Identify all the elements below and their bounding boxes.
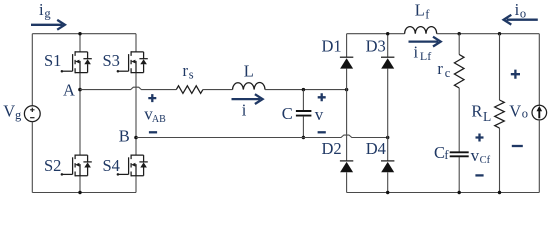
wire Lf to right corner	[437, 33, 540, 35]
svg-text:i: i	[39, 0, 44, 19]
junction dot rc branch top	[458, 32, 461, 35]
svg-text:o: o	[522, 107, 528, 121]
junction dot Cf bottom	[458, 191, 461, 194]
svg-text:S1: S1	[44, 51, 61, 70]
junction dot D4 bottom	[386, 191, 389, 194]
junction dot D3 top	[386, 32, 389, 35]
inductor Lf	[405, 27, 437, 34]
current arrow i	[232, 94, 263, 104]
minus vAB	[149, 131, 157, 133]
resistor rc	[454, 55, 464, 89]
wire leg1 middle through node A	[79, 73, 81, 156]
wire bottom-left rail	[32, 192, 136, 194]
svg-text:g: g	[44, 7, 51, 21]
junction dot leg1 bottom	[78, 191, 81, 194]
capacitor C plates	[296, 111, 312, 116]
svg-text:g: g	[15, 108, 22, 122]
wire D3/D4 leg lower	[387, 172, 389, 192]
plus Vo	[511, 70, 520, 79]
svg-text:D4: D4	[366, 139, 386, 158]
wire top-right rail bridge to Lf	[347, 33, 405, 35]
current arrow ig	[31, 20, 65, 30]
diode D3	[381, 57, 394, 68]
plus v	[318, 93, 326, 101]
wire RL branch upper	[499, 34, 501, 100]
transistor S4	[117, 155, 148, 177]
junction dot RL bottom	[498, 191, 501, 194]
svg-text:V: V	[3, 102, 15, 121]
svg-text:D3: D3	[366, 37, 386, 56]
svg-text:C: C	[434, 143, 445, 162]
svg-text:V: V	[509, 101, 521, 120]
wire right edge upper	[538, 34, 540, 106]
svg-text:Cf: Cf	[480, 155, 491, 166]
wire left vertical (Vg branch upper)	[31, 34, 33, 106]
voltage source Vg	[24, 106, 40, 122]
capacitor Cf plates	[450, 152, 469, 156]
node B dot	[134, 136, 138, 140]
svg-text:L: L	[415, 1, 425, 20]
junction dot leg1 top	[78, 32, 81, 35]
wire D1/D2 leg upper	[346, 34, 348, 58]
wire RL branch lower	[499, 128, 501, 193]
current arrow io	[504, 15, 538, 25]
plus vCf	[476, 134, 484, 142]
svg-text:i: i	[515, 0, 520, 19]
wire leg2 lower	[135, 176, 137, 193]
wire bottom-right rail	[347, 192, 540, 194]
svg-text:i: i	[414, 42, 419, 61]
junction dot C top	[302, 88, 305, 91]
svg-text:D2: D2	[322, 139, 342, 158]
wire node B to D3/D4 leg with hop over D1/D2 leg	[136, 135, 388, 137]
svg-text:f: f	[425, 8, 430, 22]
svg-text:S3: S3	[103, 51, 120, 70]
svg-text:AB: AB	[152, 114, 166, 125]
svg-text:L: L	[244, 61, 254, 80]
diode D4	[381, 161, 394, 172]
svg-text:R: R	[471, 101, 482, 120]
inductor L	[233, 83, 266, 90]
svg-text:i: i	[242, 101, 247, 120]
junction dot RL branch top	[498, 32, 501, 35]
wire D3/D4 leg upper	[387, 34, 389, 58]
junction dot B-wire on D3/D4 leg	[386, 136, 389, 139]
svg-text:c: c	[445, 66, 451, 80]
svg-text:r: r	[437, 59, 443, 78]
svg-text:A: A	[63, 80, 75, 99]
node A dot	[78, 88, 82, 92]
current source io circle	[532, 105, 547, 120]
wire D1/D2 leg middle	[346, 69, 348, 161]
current arrow iLf	[409, 37, 441, 47]
capacitor C branch lower	[302, 116, 304, 137]
minus Vo	[512, 145, 523, 147]
capacitor C branch upper	[302, 90, 304, 111]
wire leg2 middle through node B	[135, 73, 137, 156]
wire node A to rs with hop over leg2	[80, 87, 176, 89]
minus vCf	[475, 174, 483, 176]
junction dot C bottom	[302, 136, 305, 139]
svg-text:S4: S4	[103, 156, 120, 175]
wire leg1 lower	[79, 176, 81, 193]
wire D3/D4 leg middle	[387, 69, 389, 161]
plus vAB	[148, 94, 156, 102]
wire D1/D2 leg lower	[346, 172, 348, 192]
svg-text:S2: S2	[44, 156, 61, 175]
minus v	[318, 131, 326, 133]
svg-text:v: v	[471, 146, 480, 165]
svg-text:f: f	[444, 148, 449, 162]
resistor rs	[176, 86, 203, 94]
wire rc branch upper	[458, 34, 460, 55]
transistor S3	[117, 51, 148, 73]
svg-text:B: B	[119, 127, 130, 146]
wire leg1 upper	[79, 34, 81, 52]
wire right edge lower	[538, 120, 540, 193]
wire Cf branch lower	[458, 157, 460, 193]
wire left vertical (Vg branch lower)	[31, 122, 33, 193]
svg-text:C: C	[282, 104, 293, 123]
svg-text:L: L	[483, 109, 491, 124]
transistor S1	[61, 51, 92, 73]
svg-text:r: r	[183, 61, 189, 80]
transistor S2	[61, 155, 92, 177]
junction dot A-wire on D1/D2 leg	[345, 88, 348, 91]
svg-text:o: o	[520, 6, 526, 20]
wire L to bridge (through C top)	[265, 89, 347, 91]
wire leg2 upper	[135, 34, 137, 52]
diode D1	[340, 57, 353, 68]
svg-text:v: v	[315, 105, 324, 124]
svg-text:Lf: Lf	[420, 49, 431, 63]
svg-text:D1: D1	[322, 37, 342, 56]
svg-text:s: s	[189, 68, 194, 82]
wire rs to L	[203, 89, 233, 91]
resistor RL	[495, 100, 505, 128]
wire top-left rail	[32, 33, 136, 35]
wire rc to Cf	[458, 88, 460, 152]
diode D2	[340, 161, 353, 172]
